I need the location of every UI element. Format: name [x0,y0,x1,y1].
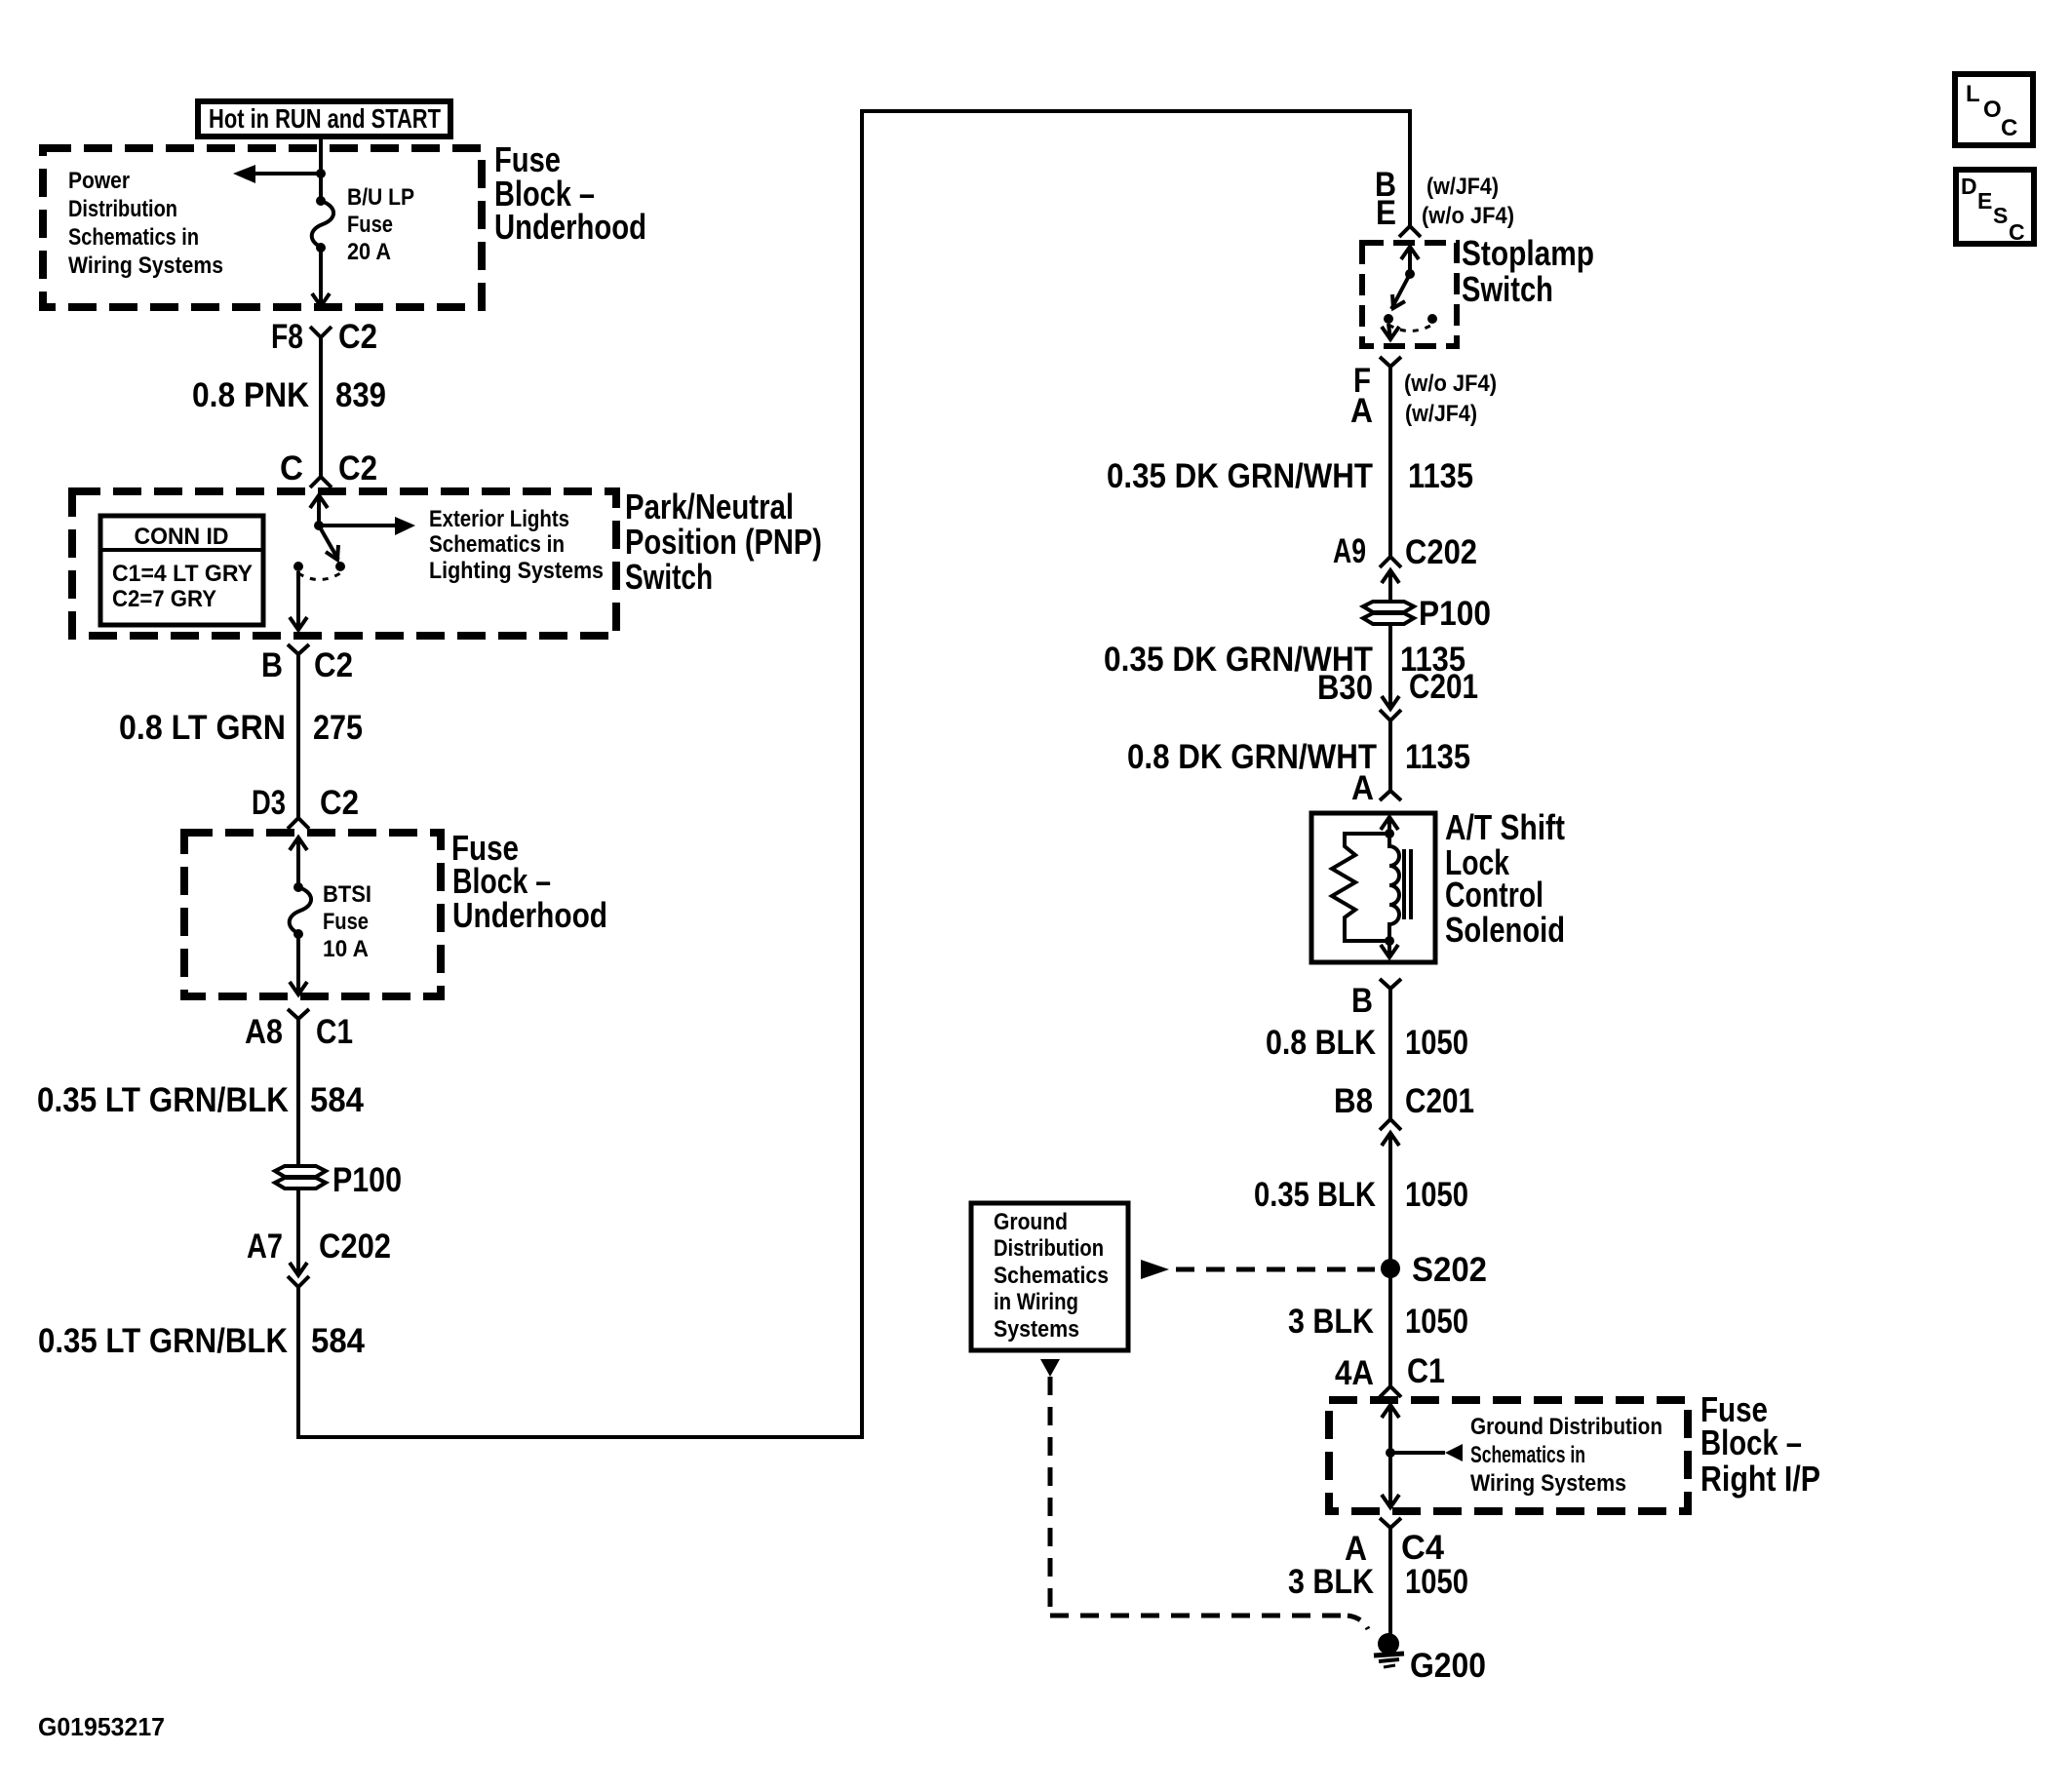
solenoid: output arrow [1381,941,1398,957]
svg-text:0.35 LT GRN/BLK: 0.35 LT GRN/BLK [38,1322,288,1360]
svg-text:(w/o JF4): (w/o JF4) [1422,203,1514,229]
svg-text:S: S [1993,203,2008,228]
connector D3 / C2 (chevron) [252,784,359,829]
svg-text:(w/JF4): (w/JF4) [1426,174,1499,200]
svg-text:1050: 1050 [1405,1303,1468,1341]
svg-text:C1=4 LT GRY: C1=4 LT GRY [112,561,253,587]
svg-text:Underhood: Underhood [452,895,607,935]
svg-text:0.8 DK GRN/WHT: 0.8 DK GRN/WHT [1127,738,1377,776]
connector B30 / C201 (double chevron) [1317,668,1478,721]
svg-text:Position (PNP): Position (PNP) [625,522,822,562]
note "Power Distribution Schematics in Wiring Systems" [68,168,223,279]
park/neutral position switch dashed box [72,491,616,636]
wire 0.35 BLK 1050 [1388,1133,1392,1268]
svg-text:(w/o JF4): (w/o JF4) [1404,370,1497,397]
arrow to power distribution schematics [233,165,321,183]
svg-text:1050: 1050 [1405,1024,1468,1062]
svg-text:C2: C2 [314,646,353,684]
connector B / E into stoplamp switch (chevron) [1375,166,1421,237]
label "A/T Shift Lock Control Solenoid" [1445,807,1565,950]
wire 0.35 DK GRN/WHT 1135 (middle) [1388,624,1392,709]
svg-text:P100: P100 [332,1161,402,1199]
svg-text:C4: C4 [1401,1529,1445,1567]
svg-text:Control: Control [1445,875,1543,915]
solenoid internal node (top) [1385,829,1394,838]
pass-through grommet P100 (right) [1363,595,1491,633]
svg-text:in Wiring: in Wiring [994,1289,1078,1315]
svg-text:O: O [1983,97,2002,123]
svg-text:0.35 BLK: 0.35 BLK [1254,1176,1376,1214]
svg-text:Switch: Switch [1462,269,1553,309]
LOC reference box [1955,74,2033,145]
svg-text:A7: A7 [247,1227,283,1266]
A/T shift lock control solenoid box [1311,813,1435,962]
value label "0.35 BLK" / circuit 1050 [1254,1176,1468,1214]
svg-text:Lighting Systems: Lighting Systems [429,558,604,584]
connector B8 / C201 (double chevron) [1334,1082,1474,1146]
svg-text:C2: C2 [338,449,377,487]
DESC reference box [1956,170,2034,245]
svg-text:C: C [2001,115,2017,141]
svg-text:0.8 PNK: 0.8 PNK [192,376,309,414]
svg-text:584: 584 [310,1081,364,1119]
stoplamp switch output wire and exit arrow [1382,324,1399,339]
svg-text:E: E [1376,194,1396,232]
wire from C202 to P100 [1388,570,1392,603]
fuse block right I/P: input arrow [1382,1405,1399,1453]
svg-text:Power: Power [68,168,130,194]
svg-text:0.35 LT GRN/BLK: 0.35 LT GRN/BLK [37,1081,289,1119]
svg-text:B: B [1351,982,1373,1020]
svg-text:B/U LP: B/U LP [347,184,414,211]
dashed reference line from box to S202 [1141,1260,1375,1279]
svg-text:A9: A9 [1333,532,1366,570]
connector C / C2 (chevron) [280,449,377,487]
svg-text:1135: 1135 [1408,457,1473,495]
connector F8 / C2 (Y symbol) [271,318,377,356]
value label "B/U LP Fuse 20 A" [347,184,414,265]
node: feed junction [316,169,326,178]
svg-text:0.35 DK GRN/WHT: 0.35 DK GRN/WHT [1107,457,1373,495]
svg-text:Schematics: Schematics [994,1263,1109,1289]
connector A8 / C1 (Y symbol) [245,1009,353,1051]
svg-text:BTSI: BTSI [323,881,371,908]
splice node S202 [1381,1251,1487,1289]
connector B out of solenoid (Y symbol) [1351,979,1401,1020]
svg-text:C202: C202 [1405,533,1477,571]
svg-text:CONN ID: CONN ID [135,524,229,550]
svg-text:P100: P100 [1419,595,1491,633]
svg-text:C2: C2 [320,784,359,822]
svg-text:Distribution: Distribution [68,196,177,222]
stoplamp switch: input arrow [1401,247,1419,274]
svg-text:Underhood: Underhood [494,207,646,247]
svg-text:1050: 1050 [1405,1563,1468,1601]
svg-text:L: L [1966,81,1980,107]
label "Park/Neutral Position (PNP) Switch" [625,487,822,597]
wire from Hot in RUN box into fuse block [319,136,323,201]
value label "0.35 LT GRN/BLK" / circuit 584 [37,1081,364,1119]
svg-text:Solenoid: Solenoid [1445,910,1565,950]
svg-text:Right I/P: Right I/P [1700,1459,1820,1499]
label "Stoplamp Switch" [1462,233,1594,309]
svg-text:1050: 1050 [1405,1176,1468,1214]
svg-text:C201: C201 [1405,1082,1474,1120]
connector A into solenoid [1351,769,1401,807]
fuse block right I/P dashed box [1329,1400,1688,1511]
svg-text:Fuse: Fuse [323,909,369,935]
value label "0.8 PNK" / circuit 839 [192,376,386,414]
PNP switch blade with arrowhead [319,526,338,560]
fuse block right I/P: output arrow [1382,1453,1399,1507]
svg-text:275: 275 [313,709,363,747]
svg-text:Wiring Systems: Wiring Systems [68,253,223,279]
value label "3 BLK" / circuit 1050 (lower) [1288,1563,1468,1601]
wire 0.35 LT GRN/BLK 584 (upper) [296,1019,300,1166]
wire 3 BLK 1050 (lower) [1388,1528,1392,1640]
value label "0.8 LT GRN" / circuit 275 [119,709,363,747]
CONN ID table [100,516,263,625]
stoplamp switch dashed box [1362,243,1457,346]
svg-text:E: E [1977,188,1992,214]
PNP switch contact nodes [293,562,303,571]
connector A / C4 (Y symbol) [1345,1518,1445,1568]
svg-text:C202: C202 [319,1227,391,1266]
svg-text:Wiring Systems: Wiring Systems [1470,1470,1626,1497]
label "Hot in RUN and START" box [198,101,450,136]
svg-text:Distribution: Distribution [994,1235,1104,1262]
fuse block underhood dashed box (power distribution) [43,148,482,307]
svg-text:20 A: 20 A [347,239,391,265]
wire from P100 to C202 [296,1188,300,1275]
svg-text:Fuse: Fuse [347,212,393,238]
value label "0.35 DK GRN/WHT" / circuit 1135 [1107,457,1473,495]
svg-text:3 BLK: 3 BLK [1288,1563,1374,1601]
wire 0.35 DK GRN/WHT 1135 (upper) [1388,367,1392,557]
label "Fuse Block - Right I/P" [1700,1389,1820,1499]
svg-text:B: B [261,646,283,684]
svg-text:D3: D3 [252,784,286,822]
label "Fuse Block - Underhood" (top) [494,139,646,247]
svg-text:4A: 4A [1335,1354,1374,1392]
svg-text:1135: 1135 [1405,738,1470,776]
value label "0.35 DK GRN/WHT" / circuit 1135 (middle) [1104,641,1465,679]
value label "0.35 LT GRN/BLK" / circuit 584 (lower) [38,1322,365,1360]
value label "0.8 DK GRN/WHT" / circuit 1135 (lower) [1127,738,1470,776]
wire 0.8 PNK 839 [319,337,323,477]
solenoid core lines [1404,849,1411,919]
svg-text:Exterior Lights: Exterior Lights [429,506,569,532]
PNP switch alternate-throw dashed arc [298,573,340,580]
svg-text:A8: A8 [245,1013,283,1051]
PNP switch: input arrow [310,495,328,526]
svg-text:C: C [2009,219,2025,245]
svg-text:584: 584 [311,1322,365,1360]
wire from BTSI fuse to exit arrow [290,934,307,994]
svg-text:3 BLK: 3 BLK [1288,1303,1374,1341]
connector A9 / C202 (double chevron) [1333,532,1477,583]
stoplamp switch alternate-throw dashed arc [1388,325,1432,331]
wire 3 BLK 1050 (upper) [1388,1268,1392,1386]
BTSI input arrow [290,838,307,887]
dashed reference line from box to G200 [1040,1359,1368,1629]
svg-text:A: A [1350,392,1373,430]
fuse block right I/P internal node [1386,1448,1395,1458]
svg-text:C1: C1 [316,1013,353,1051]
wire 0.8 LT GRN 275 [296,654,300,818]
svg-text:A/T Shift: A/T Shift [1445,807,1565,847]
svg-text:G01953217: G01953217 [38,1712,165,1741]
svg-text:0.8 LT GRN: 0.8 LT GRN [119,709,286,747]
wire from fuse to block exit arrow [312,248,330,306]
svg-text:C201: C201 [1409,668,1478,706]
svg-text:Switch: Switch [625,557,713,597]
svg-text:Schematics in: Schematics in [429,531,565,558]
connector F / A out of stoplamp switch (Y symbol) [1350,357,1401,430]
svg-text:Schematics in: Schematics in [1470,1442,1585,1468]
ground distribution reference box [971,1203,1128,1350]
svg-text:Systems: Systems [994,1316,1079,1343]
svg-text:10 A: 10 A [323,936,369,962]
solenoid: input arrow [1381,817,1398,834]
PNP switch pivot node [314,521,324,530]
svg-text:D: D [1961,174,1977,199]
connector B / C2 (Y symbol) [261,644,353,684]
svg-text:Block –: Block – [1700,1422,1802,1462]
svg-text:G200: G200 [1410,1647,1486,1685]
solenoid coil [1389,834,1399,941]
solenoid internal node (bottom) [1385,936,1394,946]
svg-text:Hot in RUN and START: Hot in RUN and START [209,103,441,134]
fuse block underhood dashed box (BTSI) [184,833,441,996]
stoplamp switch contact nodes [1384,314,1393,324]
connector 4A / C1 (chevron) [1335,1352,1445,1397]
value label "BTSI Fuse 10 A" [323,881,371,962]
note "Exterior Lights Schematics in Lighting Systems" [429,506,604,584]
svg-text:B30: B30 [1317,669,1373,707]
PNP switch output wire and exit arrow [290,571,307,630]
svg-text:Ground Distribution: Ground Distribution [1470,1414,1662,1440]
solenoid internal resistor [1332,834,1389,941]
svg-text:Park/Neutral: Park/Neutral [625,487,794,526]
arrow to ground distribution schematics (inside fuse block) [1390,1444,1463,1461]
note "Ground Distribution Schematics in Wiring Systems" (fuse block) [1470,1414,1662,1497]
svg-text:B8: B8 [1334,1082,1373,1120]
connector A7 / C202 (double chevron) [247,1227,391,1287]
wire 0.8 DK GRN/WHT 1135 (lower) [1388,721,1392,791]
svg-text:0.8 BLK: 0.8 BLK [1266,1024,1376,1062]
value label "3 BLK" / circuit 1050 [1288,1303,1468,1341]
wire 0.8 BLK 1050 [1388,989,1392,1119]
arrow to exterior lights schematics [319,517,415,535]
stoplamp switch blade with arrowhead [1391,274,1410,309]
svg-text:F8: F8 [271,318,303,356]
label "Fuse Block - Underhood" (BTSI) [451,828,607,935]
svg-text:C1: C1 [1407,1352,1445,1390]
svg-text:Stoplamp: Stoplamp [1462,233,1594,273]
svg-text:Ground: Ground [994,1209,1068,1235]
svg-text:839: 839 [335,376,386,414]
fuse B/U LP 20 A [312,196,333,253]
wire 0.35 LT GRN/BLK 584 (lower) + long run to stoplamp switch [296,109,1412,1439]
value label "0.8 BLK" / circuit 1050 [1266,1024,1468,1062]
pass-through grommet P100 (left) [275,1161,402,1199]
fuse BTSI 10 A [290,882,311,939]
svg-text:(w/JF4): (w/JF4) [1405,401,1477,427]
svg-text:S202: S202 [1412,1251,1487,1289]
stoplamp switch pivot node [1405,269,1415,279]
svg-text:A: A [1351,769,1374,807]
ground G200 [1374,1633,1486,1685]
svg-text:C: C [280,449,303,487]
svg-text:C2=7 GRY: C2=7 GRY [112,586,216,612]
svg-text:Schematics in: Schematics in [68,224,199,251]
svg-text:C2: C2 [338,318,377,356]
